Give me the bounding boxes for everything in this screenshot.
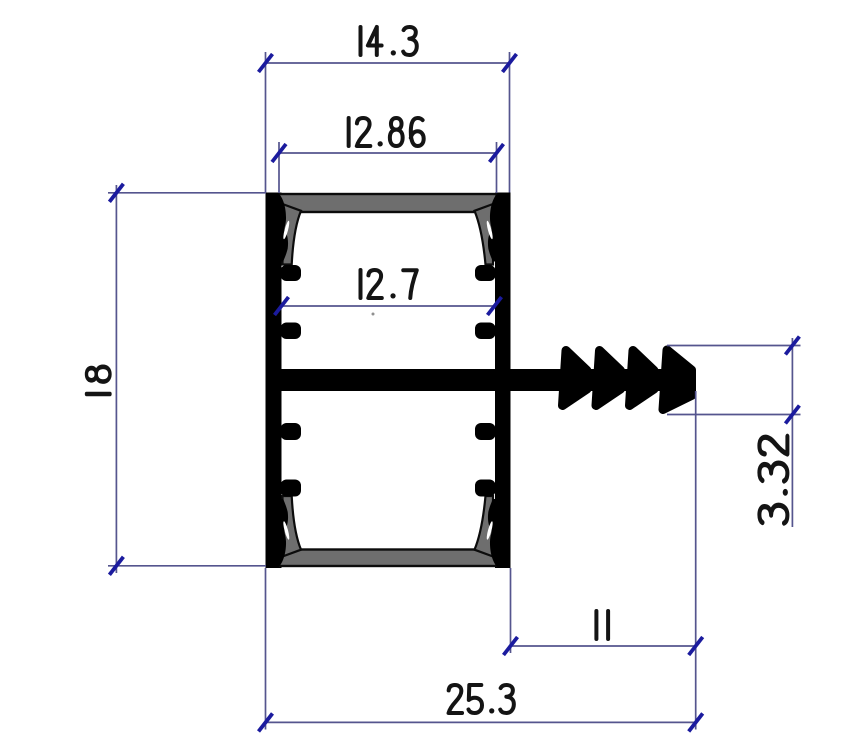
black corner wedge top-left: [276, 193, 288, 262]
tooth row1 right: [475, 265, 496, 281]
tick 12.7 left: [275, 297, 289, 315]
tick 3.32 bottom: [785, 406, 799, 424]
tooth row2 left: [281, 323, 302, 340]
white crescent top-right: [486, 220, 494, 239]
tooth row3 left: [281, 423, 302, 440]
tick 18 top: [109, 184, 123, 202]
tick 25.3 left: [259, 713, 273, 731]
tick 14.3 right: [503, 54, 517, 72]
gray top flange band: [279, 194, 497, 212]
black corner wedge bottom-right: [488, 499, 500, 568]
ext line 12.86 right: [496, 142, 498, 193]
text 3.32 rotated: [759, 436, 787, 523]
gray bottom flange band: [279, 550, 497, 567]
barb tooth 2: [596, 351, 621, 406]
ext line 3.32 bottom: [667, 414, 801, 416]
barb tooth 3: [630, 351, 655, 406]
ext line 25.3 left: [265, 568, 267, 730]
ext line 18 top: [108, 192, 266, 194]
dim line 18 vertical: [115, 185, 117, 573]
ext line 3.32 top: [667, 345, 801, 347]
right wall: [495, 193, 511, 569]
tick 12.7 right: [488, 297, 502, 315]
text 12.86: [349, 118, 424, 146]
white crescent bottom-right: [486, 521, 494, 540]
ext line 14.3 left: [265, 52, 267, 193]
tick 25.3 right: [689, 713, 703, 731]
ext line right shared 11/25.3: [695, 391, 697, 730]
ext line 18 bottom: [108, 565, 266, 567]
tick 18 bottom: [109, 557, 123, 575]
white crescent bottom-left: [282, 521, 290, 540]
gray leg top-left: [283, 204, 302, 265]
black corner wedge top-right: [488, 193, 500, 262]
white crescent top-left: [282, 220, 290, 239]
tick 11 right: [689, 637, 703, 655]
text 12.7: [361, 270, 417, 298]
text 11: [596, 611, 608, 639]
tick 12.86 right: [490, 144, 504, 162]
tooth row1 left: [281, 265, 302, 281]
barb arrow tip: [663, 350, 692, 410]
text 18 rotated: [86, 367, 110, 394]
ext line 14.3 right: [509, 52, 511, 193]
text 14.3: [361, 27, 417, 55]
tooth row2 right: [475, 323, 496, 340]
left wall: [266, 193, 282, 569]
dim line 12.86: [279, 152, 497, 154]
dim line 12.7: [282, 305, 495, 307]
dim line 3.32 vertical: [791, 338, 793, 527]
barb tooth 1: [563, 351, 588, 406]
ext line 11 left: [510, 568, 512, 653]
dim line 14.3: [266, 62, 510, 64]
black corner wedge bottom-left: [276, 499, 288, 568]
middle web bar: [266, 369, 686, 391]
gray leg top-right: [475, 204, 494, 265]
tooth row3 right: [475, 423, 496, 440]
ext line 12.86 left: [278, 142, 280, 193]
tooth row4 right: [475, 480, 496, 497]
tooth row4 left: [281, 480, 302, 497]
dim line 11: [511, 645, 696, 647]
stray dot artifact: [372, 313, 375, 316]
tick 11 left: [504, 637, 518, 655]
text 25.3: [449, 685, 514, 713]
gray leg bottom-left: [283, 496, 302, 557]
dim line 25.3: [266, 721, 696, 723]
tick 12.86 left: [272, 144, 286, 162]
tick 3.32 top: [785, 337, 799, 355]
tick 14.3 left: [259, 54, 273, 72]
gray leg bottom-right: [475, 496, 494, 557]
